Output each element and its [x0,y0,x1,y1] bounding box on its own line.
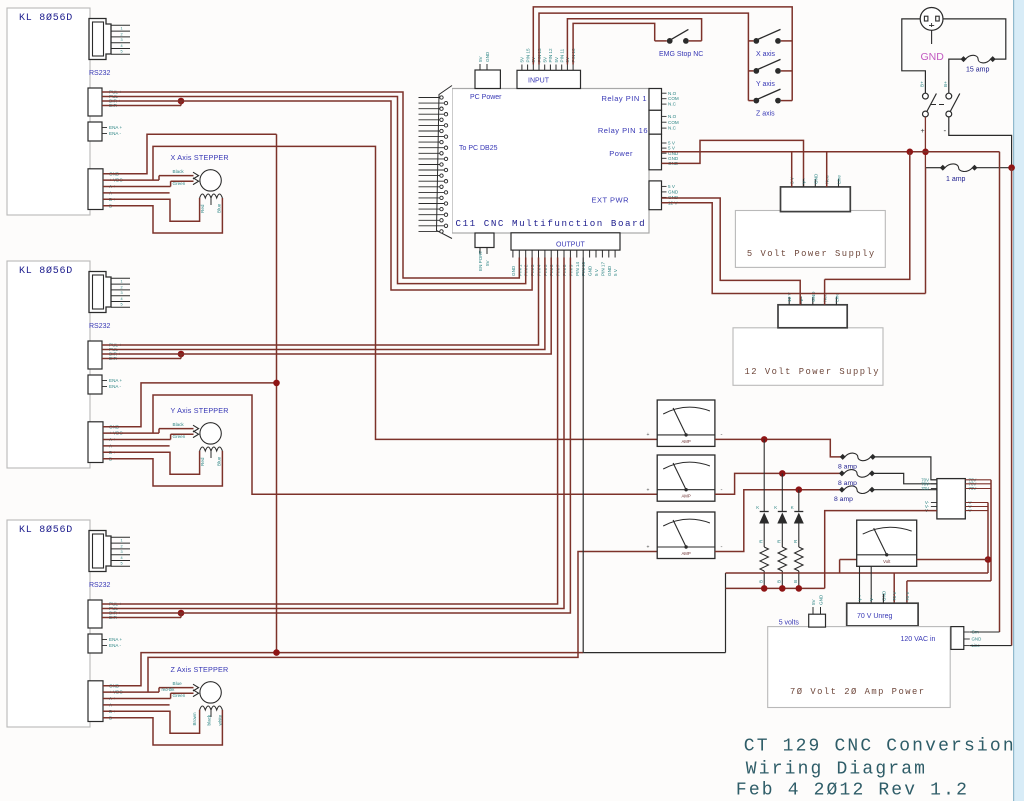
svg-text:+: + [647,487,650,493]
svg-text:Green: Green [173,434,186,439]
svg-text:Green: Green [173,181,186,186]
svg-text:V -: V - [802,178,807,184]
svg-text:5V: 5V [543,56,548,63]
svg-text:Blue: Blue [217,203,222,213]
svg-text:Blue: Blue [173,681,183,686]
svg-text:white: white [218,714,223,725]
svg-text:red-blk: red-blk [162,687,176,692]
svg-text:120 VAC in: 120 VAC in [901,636,936,643]
svg-text:8 amp: 8 amp [838,480,857,487]
svg-text:5V: 5V [554,56,559,63]
svg-text:GND: GND [607,265,612,276]
svg-text:ENA +: ENA + [109,378,122,383]
svg-text:1: 1 [121,539,123,543]
svg-text:X Axis STEPPER: X Axis STEPPER [171,153,229,162]
svg-text:5 Volt Power Supply: 5 Volt Power Supply [747,249,876,259]
svg-text:To PC DB25: To PC DB25 [459,145,498,152]
svg-text:Black: Black [173,422,185,427]
svg-text:GND: GND [819,594,824,605]
svg-text:EXT PWR: EXT PWR [591,196,629,205]
svg-text:1: 1 [121,27,123,31]
svg-text:5: 5 [121,562,123,566]
svg-text:B: B [758,580,763,583]
svg-text:AMP: AMP [681,494,690,499]
svg-text:N.O: N.O [668,114,677,119]
svg-text:X axis: X axis [756,51,776,58]
svg-text:5V: 5V [485,259,490,266]
svg-text:COM: COM [668,120,679,125]
svg-text:Y axis: Y axis [756,81,775,88]
svg-text:ENA +: ENA + [109,637,122,642]
svg-text:5 V: 5 V [668,184,676,189]
svg-text:-: - [721,487,723,493]
svg-text:Relay PIN 16: Relay PIN 16 [598,126,648,135]
svg-text:KL 8Ø56D: KL 8Ø56D [19,12,73,24]
svg-text:Black: Black [173,169,185,174]
svg-text:5 volts: 5 volts [779,620,800,627]
svg-text:AMP: AMP [681,439,690,444]
svg-text:N.C: N.C [668,126,677,131]
svg-text:3: 3 [121,550,123,554]
svg-text:C11 CNC Multifunction Board: C11 CNC Multifunction Board [456,218,647,229]
svg-text:7Ø Volt 2Ø Amp Power: 7Ø Volt 2Ø Amp Power [790,687,926,697]
svg-text:K: K [774,505,777,510]
svg-text:GND: GND [811,291,816,302]
svg-text:Z axis: Z axis [756,111,775,118]
svg-text:GND: GND [972,637,982,642]
svg-text:EMG Stop NC: EMG Stop NC [659,51,703,58]
svg-text:PIN 14: PIN 14 [575,262,580,276]
svg-text:ENA +: ENA + [109,125,122,130]
svg-text:5 V: 5 V [594,268,599,276]
svg-text:Y Axis STEPPER: Y Axis STEPPER [171,406,229,415]
svg-text:PC Power: PC Power [470,94,502,101]
svg-text:Red: Red [200,204,205,213]
svg-text:4: 4 [121,44,123,48]
svg-text:2: 2 [121,544,123,548]
svg-text:70 V Unreg: 70 V Unreg [857,613,893,620]
svg-text:Relay PIN 1: Relay PIN 1 [601,94,647,103]
svg-text:15 amp: 15 amp [966,67,989,74]
svg-text:+: + [647,544,650,550]
svg-text:B+: B+ [920,81,925,87]
svg-text:Wiring Diagram: Wiring Diagram [746,760,927,780]
svg-text:GND: GND [485,51,490,62]
svg-text:B: B [777,580,782,583]
svg-text:Line: Line [837,175,842,184]
svg-text:V -: V - [869,595,874,601]
svg-text:4: 4 [121,297,123,301]
svg-text:COM: COM [668,96,679,101]
svg-text:ENA -: ENA - [109,384,121,389]
svg-text:5: 5 [121,303,123,307]
svg-text:Power: Power [609,149,633,158]
svg-text:OUTPUT: OUTPUT [556,242,586,249]
svg-text:PIN 15: PIN 15 [525,48,530,62]
svg-text:3: 3 [121,38,123,42]
svg-text:12 Volt Power Supply: 12 Volt Power Supply [745,367,881,377]
svg-text:KL 8Ø56D: KL 8Ø56D [19,524,73,536]
svg-text:GND: GND [813,173,818,184]
svg-text:INPUT: INPUT [528,78,550,85]
svg-text:PIN 17: PIN 17 [600,262,605,276]
svg-text:5V: 5V [478,55,483,62]
svg-text:ENA -: ENA - [109,643,121,648]
svg-text:Feb 4 2Ø12 Rev 1.2: Feb 4 2Ø12 Rev 1.2 [736,781,969,801]
svg-text:5 V: 5 V [613,268,618,276]
svg-text:8 amp: 8 amp [838,464,857,471]
svg-text:70 V: 70 V [905,591,910,601]
svg-text:+: + [921,128,925,135]
svg-text:PIN 11: PIN 11 [560,48,565,62]
svg-text:GND: GND [588,265,593,276]
svg-text:70V: 70V [921,486,929,491]
svg-text:1 amp: 1 amp [946,176,966,183]
svg-text:Brown: Brown [192,712,197,725]
svg-text:2: 2 [121,32,123,36]
svg-text:PIN 12: PIN 12 [548,48,553,62]
svg-text:3: 3 [121,291,123,295]
svg-text:Volt: Volt [883,559,891,564]
svg-text:Green: Green [173,693,186,698]
svg-text:1: 1 [121,280,123,284]
svg-text:-: - [721,432,723,438]
svg-text:Blue: Blue [217,456,222,466]
svg-text:N.O: N.O [668,91,677,96]
svg-text:5V: 5V [811,598,816,605]
svg-text:KL 8Ø56D: KL 8Ø56D [19,265,73,277]
svg-text:GND: GND [668,190,679,195]
svg-text:70 V: 70 V [892,591,897,601]
svg-text:Red: Red [200,457,205,466]
svg-text:5: 5 [121,50,123,54]
svg-text:K: K [756,505,759,510]
svg-text:B: B [793,580,798,583]
svg-text:GND: GND [921,51,945,63]
svg-text:AMP: AMP [681,551,690,556]
svg-text:+: + [647,432,650,438]
svg-text:N.C: N.C [668,102,677,107]
svg-text:4: 4 [121,556,123,560]
svg-text:K: K [791,505,794,510]
svg-text:black: black [207,714,212,725]
svg-text:CT 129 CNC Conversion: CT 129 CNC Conversion [744,737,1016,757]
svg-text:-: - [721,544,723,550]
svg-text:8 amp: 8 amp [834,496,853,503]
svg-text:RS232: RS232 [89,323,111,330]
svg-text:GND: GND [511,265,516,276]
svg-text:B+: B+ [943,81,948,87]
svg-text:2: 2 [121,285,123,289]
svg-text:RS232: RS232 [89,70,111,77]
svg-text:5V: 5V [520,56,525,63]
svg-text:V -: V - [858,595,863,601]
svg-text:RS232: RS232 [89,582,111,589]
svg-text:EN PORT: EN PORT [478,250,483,271]
svg-text:ENA -: ENA - [109,131,121,136]
svg-text:Z Axis STEPPER: Z Axis STEPPER [171,665,229,674]
svg-text:-: - [944,126,947,135]
